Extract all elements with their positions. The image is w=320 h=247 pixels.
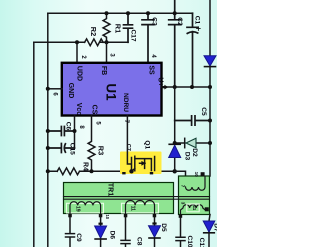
label U1 bbox=[104, 83, 119, 101]
capacitor C1 polarized bbox=[187, 13, 198, 87]
node C15 left junction bbox=[46, 146, 50, 150]
label D6 bbox=[108, 231, 115, 240]
label C2 bbox=[176, 17, 183, 26]
wire right bus bottom bbox=[209, 215, 210, 247]
label UDD bbox=[75, 66, 82, 81]
capacitor C2 bbox=[169, 0, 181, 87]
svg-text:C7: C7 bbox=[125, 144, 131, 151]
label D2 bbox=[191, 148, 198, 157]
pad secondary left bbox=[179, 214, 183, 218]
wire pin3 FB stub bbox=[106, 42, 108, 63]
resistor R2 bbox=[85, 39, 104, 46]
svg-text:C10: C10 bbox=[186, 235, 193, 247]
svg-text:C15: C15 bbox=[68, 143, 75, 155]
svg-text:C6: C6 bbox=[65, 122, 72, 131]
label C7 bbox=[125, 144, 131, 151]
diode D3 bbox=[169, 144, 181, 157]
node R1 bottom junction bbox=[105, 40, 109, 44]
transformer TR1 main box bbox=[64, 183, 174, 214]
label C3 bbox=[151, 17, 158, 26]
label TR1 bbox=[107, 183, 114, 196]
node C6 right junction bbox=[73, 129, 77, 133]
pad winding A right bbox=[99, 214, 103, 218]
svg-text:C2: C2 bbox=[176, 17, 183, 26]
diode D5 bbox=[149, 226, 161, 238]
svg-text:FB: FB bbox=[100, 66, 107, 75]
winding box right lower bbox=[187, 204, 199, 212]
pad secondary right bbox=[205, 207, 209, 211]
svg-text:C5: C5 bbox=[200, 107, 207, 116]
svg-text:UDD: UDD bbox=[75, 66, 82, 81]
label CS bbox=[91, 105, 98, 115]
label C8 bbox=[135, 237, 142, 246]
label pin 7 bbox=[123, 120, 129, 124]
node drain junction bbox=[173, 169, 177, 173]
label C5 bbox=[200, 107, 207, 116]
label C1 bbox=[194, 16, 201, 25]
node D2 left junction bbox=[173, 141, 177, 145]
node D2 right junction bbox=[208, 141, 212, 145]
label Vcc bbox=[75, 103, 82, 116]
svg-text:D3: D3 bbox=[184, 152, 191, 161]
pad Q1 left bbox=[122, 172, 125, 174]
winding box S2 bbox=[122, 203, 159, 213]
node C2 rail junction bbox=[173, 11, 177, 15]
capacitor C15 polarized bbox=[48, 144, 75, 153]
svg-text:10: 10 bbox=[105, 214, 110, 219]
svg-text:U+: U+ bbox=[156, 77, 163, 86]
label C15 bbox=[68, 143, 75, 155]
svg-text:C9: C9 bbox=[75, 233, 82, 242]
node source row left junction bbox=[46, 169, 50, 173]
wire D6 down bbox=[100, 239, 102, 247]
pad winding B left bbox=[124, 214, 128, 218]
wire winding B left down bbox=[121, 217, 130, 247]
svg-text:Vcc: Vcc bbox=[75, 103, 82, 116]
wire R2 node row bbox=[34, 41, 128, 43]
label C9 bbox=[75, 233, 82, 242]
label TR pin 3 bbox=[181, 202, 186, 205]
svg-text:R3: R3 bbox=[97, 146, 106, 155]
label SS bbox=[147, 65, 154, 75]
wire U+ pin1 bbox=[162, 86, 211, 88]
label U+ bbox=[156, 77, 163, 86]
svg-text:R1: R1 bbox=[114, 24, 123, 33]
label pin 8 bbox=[78, 125, 84, 129]
svg-text:CS: CS bbox=[91, 105, 98, 115]
label D7 bbox=[213, 223, 220, 232]
label pin 6 bbox=[52, 92, 58, 96]
label TR pin 7 bbox=[181, 185, 186, 188]
label R1 bbox=[114, 24, 123, 33]
svg-text:D6: D6 bbox=[108, 231, 115, 240]
label C1 plus bbox=[197, 27, 201, 31]
wire left vertical bus B bbox=[33, 42, 35, 247]
svg-text:C3: C3 bbox=[151, 17, 158, 26]
svg-text:R2: R2 bbox=[89, 27, 98, 36]
wire secondary left down bbox=[176, 218, 185, 247]
label TR pin 2 bbox=[179, 176, 185, 179]
pad primary right bbox=[201, 172, 205, 176]
label C6 bbox=[65, 122, 72, 131]
transformer TR1 right box bbox=[179, 176, 210, 215]
svg-text:D5: D5 bbox=[160, 223, 167, 232]
resistor R1 bbox=[103, 13, 110, 42]
label FB bbox=[100, 66, 107, 75]
wire top rail bbox=[48, 12, 193, 14]
capacitor C3 bbox=[142, 13, 154, 63]
label C17 bbox=[129, 29, 136, 41]
wire right bus top bbox=[209, 0, 211, 56]
winding A coil bbox=[70, 202, 101, 214]
wire pin8 stub bbox=[74, 116, 76, 149]
label pin 1 arrow bbox=[161, 85, 168, 90]
label R2 bbox=[89, 27, 98, 36]
label R4 bbox=[82, 162, 89, 171]
svg-text:R4: R4 bbox=[82, 162, 89, 171]
node C5 right junction bbox=[208, 119, 212, 123]
wire snubber vertical bbox=[174, 87, 176, 171]
node R3 bottom junction bbox=[90, 169, 94, 173]
label R3 bbox=[97, 146, 106, 155]
wire winding B right down bbox=[152, 217, 156, 247]
label D3 bbox=[184, 152, 191, 161]
label winding A pin 10 bbox=[105, 214, 110, 219]
wire pin7 gate stub bbox=[127, 116, 131, 165]
svg-text:Q1: Q1 bbox=[143, 140, 150, 149]
diode D1 bbox=[204, 56, 216, 67]
wire to primary bbox=[175, 171, 186, 187]
wire left vertical bus A bbox=[47, 13, 49, 247]
label winding 11 bbox=[130, 206, 136, 212]
transistor Q1 highlight box bbox=[120, 152, 162, 175]
svg-text:NDRU: NDRU bbox=[122, 93, 129, 112]
wire pin2 VDD stub bbox=[76, 42, 78, 63]
label pin 4 bbox=[150, 54, 156, 58]
wire source row bbox=[48, 170, 175, 172]
wire winding A left down bbox=[66, 217, 75, 247]
resistor R3 bbox=[88, 116, 95, 172]
svg-text:TR1: TR1 bbox=[107, 183, 114, 196]
label winding 19 bbox=[74, 206, 80, 212]
winding box S1 bbox=[67, 203, 104, 213]
node C17 top junction bbox=[126, 11, 130, 15]
diode D7 bbox=[203, 221, 215, 233]
pad winding B right bbox=[153, 214, 157, 218]
label C10 bbox=[186, 235, 193, 247]
svg-text:C17: C17 bbox=[129, 29, 136, 41]
pad Q1 right bbox=[150, 172, 153, 174]
label NDRV bbox=[122, 93, 129, 112]
svg-text:11: 11 bbox=[130, 206, 136, 212]
transistor Q1 mosfet symbol bbox=[132, 156, 155, 171]
winding primary coil bbox=[186, 176, 206, 190]
node U+ right junction bbox=[208, 85, 212, 89]
node U+ C2 junction bbox=[173, 85, 177, 89]
wire winding A right down bbox=[99, 217, 103, 226]
node C3 top junction bbox=[146, 11, 150, 15]
label right winding 11 bbox=[192, 205, 197, 210]
svg-text:C1: C1 bbox=[194, 16, 201, 25]
svg-text:SS: SS bbox=[147, 65, 154, 75]
svg-text:C11: C11 bbox=[198, 238, 205, 247]
ic U1 body bbox=[62, 63, 162, 116]
svg-text:D7: D7 bbox=[213, 223, 217, 232]
label pin 2 bbox=[80, 55, 86, 59]
label D5 bbox=[160, 223, 167, 232]
wire GND pin6 bbox=[48, 88, 62, 90]
resistor R4 bbox=[57, 168, 79, 175]
wire right bus mid bbox=[209, 67, 211, 176]
svg-text:7: 7 bbox=[181, 185, 186, 188]
winding secondary right coil bbox=[181, 205, 207, 215]
label C11 bbox=[198, 238, 205, 247]
svg-text:3: 3 bbox=[181, 202, 186, 205]
node GND junction bbox=[46, 87, 50, 91]
label pin 5 bbox=[94, 121, 100, 125]
capacitor C5 bbox=[175, 116, 210, 125]
node R1 top junction bbox=[105, 11, 109, 15]
svg-text:D2: D2 bbox=[191, 148, 198, 157]
transformer core lines bbox=[64, 197, 210, 200]
label Q1 bbox=[143, 140, 150, 149]
winding B coil bbox=[126, 200, 155, 213]
svg-text:11: 11 bbox=[192, 205, 197, 210]
pad winding A left bbox=[68, 214, 72, 218]
diode D2 bbox=[175, 138, 210, 148]
svg-text:C8: C8 bbox=[135, 237, 142, 246]
node C6 left junction bbox=[46, 129, 50, 133]
node pin2 junction bbox=[75, 40, 79, 44]
node U+ C1 junction bbox=[190, 85, 194, 89]
svg-text:19: 19 bbox=[74, 206, 80, 212]
node Q1 source junction bbox=[129, 169, 133, 173]
svg-text:10: 10 bbox=[194, 172, 199, 178]
capacitor C6 bbox=[48, 127, 75, 136]
label GND bbox=[67, 83, 74, 99]
svg-text:U1: U1 bbox=[104, 83, 119, 101]
label pin 3 bbox=[109, 53, 115, 57]
diode D6 bbox=[95, 226, 107, 239]
svg-text:GND: GND bbox=[67, 83, 74, 99]
capacitor C17 bbox=[124, 13, 133, 42]
label TR pin 10 bbox=[194, 172, 199, 178]
